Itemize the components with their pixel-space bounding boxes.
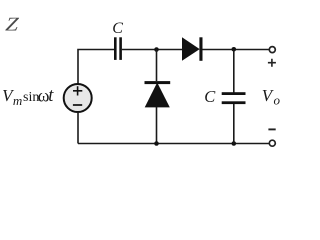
svg-text:Z: Z (4, 14, 20, 35)
svg-text:C: C (112, 20, 123, 37)
output label Vo (262, 86, 281, 108)
terminal output bottom (269, 140, 275, 146)
node junction bottom of output capacitor (232, 141, 237, 146)
voltage source VS circle (64, 84, 92, 112)
svg-text:m: m (13, 93, 22, 108)
capacitor C output plates (222, 92, 246, 95)
wire D1 branch upper (156, 50, 158, 82)
wire D2 to output node (203, 49, 270, 51)
node junction top of D1 branch (154, 47, 159, 52)
wire source bottom to ground rail (77, 112, 79, 144)
voltage source plus sign (73, 86, 82, 95)
node junction bottom of D1 branch (154, 141, 159, 146)
svg-text:t: t (48, 86, 54, 106)
wire output capacitor lower (233, 104, 235, 144)
wire output capacitor upper (233, 50, 235, 93)
diode D2 series (pointing right) (182, 37, 200, 61)
wire top-left corner from source to capacitor (78, 50, 114, 85)
capacitor C series plates (114, 37, 117, 60)
output minus sign (268, 128, 275, 130)
source label Vm sin wt (2, 85, 54, 108)
svg-text:C: C (204, 87, 216, 106)
wire capacitor to diode D2 (122, 49, 182, 51)
terminal output top (269, 47, 275, 53)
voltage source minus sign (73, 104, 82, 106)
wire D1 branch lower (156, 107, 158, 144)
diode D1 shunt (pointing up) cathode bar (145, 81, 171, 84)
node junction top of output capacitor (232, 47, 237, 52)
svg-text:o: o (274, 92, 281, 107)
output plus sign (268, 59, 276, 67)
diode D1 shunt triangle (145, 83, 170, 108)
wire bottom rail (78, 143, 269, 145)
